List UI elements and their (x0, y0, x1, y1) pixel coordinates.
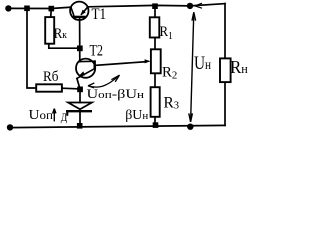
wire divider top lead (154, 6, 156, 18)
wire top rail left (9, 7, 71, 8)
node square top B (Rк) (49, 6, 55, 12)
wire Rк top lead (50, 9, 53, 18)
wire Rк bottom to node C (49, 44, 80, 49)
transistor T1 (70, 2, 88, 20)
wire R1-R2 lead (154, 38, 156, 50)
wire left rail to Rб (27, 8, 36, 88)
wire T2 base to R2 tap (96, 62, 146, 66)
wire zener bottom lead (79, 112, 81, 127)
wire R3 bottom lead (154, 117, 156, 125)
arrow Uоп (up, at zener) (53, 109, 56, 122)
resistor R2 (151, 49, 161, 73)
svg-text:Т2: Т2 (90, 43, 104, 60)
wire T1 base / T2 collector (79, 18, 81, 62)
svg-text:βUн: βUн (125, 108, 148, 123)
resistor Rб (36, 84, 62, 91)
wire Rб right lead to node D (62, 87, 80, 90)
transistor T2 (76, 59, 95, 79)
node square zener bottom (77, 123, 83, 129)
resistor R3 (151, 87, 160, 117)
terminal dot input + (5, 5, 11, 11)
wire right rail (224, 4, 226, 59)
svg-text:Т1: Т1 (92, 6, 107, 23)
wire top rail right (88, 4, 225, 7)
svg-text:Uоп-βUн: Uоп-βUн (87, 86, 145, 101)
node square R1 top (152, 3, 158, 9)
terminal dot input - (7, 124, 13, 130)
arrow curved Uоп-βUн left head (88, 75, 120, 88)
svg-text:Rб: Rб (43, 69, 59, 85)
wire zener top lead (79, 92, 81, 103)
svg-text:Д: Д (61, 110, 67, 124)
arrow Uн (double-headed, right side) (189, 12, 196, 122)
svg-text:Uоп: Uоп (29, 108, 54, 123)
wire right rail lower (224, 82, 226, 125)
node square D (T2 emitter / Rб / zener) (77, 87, 83, 93)
svg-text:Rк: Rк (54, 26, 68, 42)
wire T2 emitter outer (77, 78, 80, 89)
arrow curved Uоп-βUн right head (111, 75, 119, 80)
wire Rн top lead (224, 57, 226, 59)
resistor Rк (45, 17, 54, 44)
arrow current at output (left-pointing) (195, 3, 202, 8)
wire bottom rail (10, 125, 225, 127)
node square C (T1 base / Rк / T2 collector) (77, 46, 83, 52)
terminal dot output - (187, 124, 193, 130)
node square R3 bottom (153, 122, 159, 128)
arrow R2 tap (145, 59, 151, 63)
resistor Rн (220, 58, 231, 82)
node square top A (24, 6, 30, 12)
wire R2-R3 lead (154, 73, 156, 87)
resistor R1 (150, 17, 160, 37)
terminal dot output + (187, 3, 193, 9)
zener diode Д (66, 103, 92, 116)
